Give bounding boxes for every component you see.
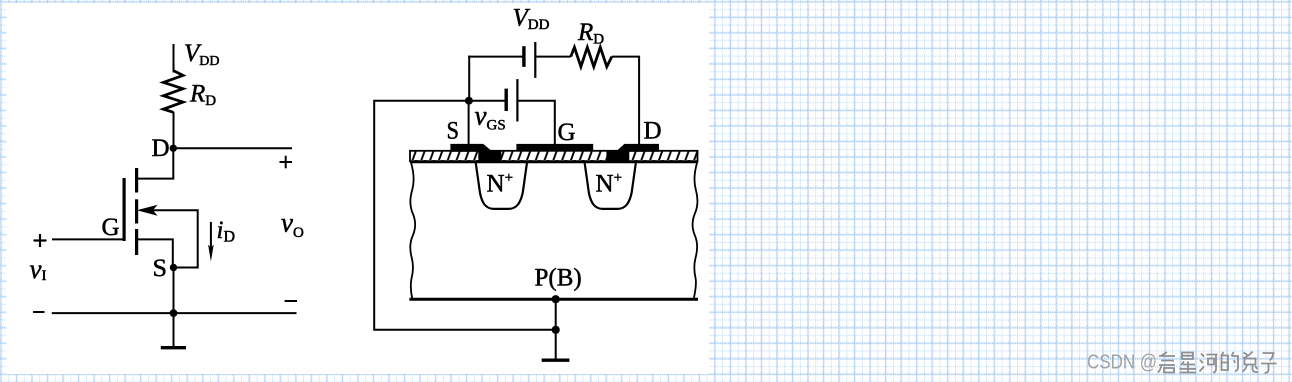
node D dot bbox=[170, 145, 177, 152]
watermark hanzi he bbox=[1200, 354, 1218, 373]
wire resistor to node D bbox=[173, 112, 175, 148]
svg-text:D: D bbox=[152, 135, 170, 162]
substrate left wavy edge bbox=[410, 162, 415, 299]
svg-text:S: S bbox=[153, 255, 168, 282]
wire S node up bbox=[468, 56, 470, 101]
transistor channel dash body bbox=[135, 199, 138, 223]
wire resistor to D corner bbox=[612, 57, 639, 144]
battery vGS short bar bbox=[505, 89, 508, 111]
substrate contact dot bbox=[552, 295, 560, 303]
svg-text:P(B): P(B) bbox=[535, 265, 582, 292]
watermark hanzi kan bbox=[1158, 352, 1175, 373]
ground (left) bbox=[161, 313, 186, 348]
current arrow i_D bbox=[208, 222, 214, 262]
N+ well left bbox=[476, 163, 527, 209]
battery vGS long bar bbox=[516, 79, 518, 121]
label minus left bbox=[33, 311, 45, 313]
wire drain stub bbox=[137, 149, 173, 179]
wire substrate to ground node bbox=[555, 299, 557, 330]
label minus right bbox=[285, 300, 297, 302]
wire body to source bbox=[152, 210, 198, 267]
electrode D metal bbox=[607, 144, 659, 161]
svg-text:CSDN @: CSDN @ bbox=[1087, 351, 1157, 374]
ground (right) bbox=[542, 330, 570, 360]
wire outer loop (S to substrate) bbox=[374, 101, 556, 330]
wire S to ground rail bbox=[173, 268, 175, 314]
watermark hanzi tu bbox=[1243, 352, 1259, 373]
wire gate input bbox=[52, 238, 124, 240]
transistor channel dash drain bbox=[135, 168, 138, 193]
oxide layer hatched bbox=[410, 151, 698, 161]
label + input bbox=[34, 234, 47, 247]
svg-text:S: S bbox=[447, 118, 460, 145]
wire S node down to contact bbox=[468, 101, 470, 145]
wire source stub bbox=[137, 239, 173, 267]
wire output top bbox=[173, 147, 292, 149]
resistor R_D (left) bbox=[163, 71, 183, 113]
wire battery to resistor bbox=[536, 56, 571, 58]
substrate bottom line bbox=[409, 298, 698, 301]
white panel bbox=[7, 3, 710, 374]
node S dot bbox=[170, 264, 177, 271]
label + output bbox=[280, 156, 293, 169]
watermark hanzi de bbox=[1222, 352, 1239, 371]
svg-text:D: D bbox=[644, 118, 662, 145]
node S junction dot bbox=[465, 97, 473, 105]
transistor channel dash source bbox=[135, 229, 138, 255]
wire bottom rail bbox=[52, 312, 297, 314]
svg-text:G: G bbox=[102, 214, 120, 241]
watermark hanzi xing bbox=[1180, 353, 1197, 373]
watermark hanzi zi bbox=[1261, 353, 1277, 373]
electrode S metal bbox=[451, 144, 501, 161]
svg-text:G: G bbox=[558, 119, 576, 146]
substrate right wavy edge bbox=[693, 162, 698, 299]
battery VDD short bar bbox=[522, 46, 525, 67]
body arrow head bbox=[139, 206, 156, 215]
substrate top line bbox=[410, 160, 698, 163]
wire S node to vGS battery bbox=[469, 100, 505, 102]
wire top to battery VDD bbox=[468, 56, 522, 58]
electrode G metal bbox=[516, 144, 593, 151]
battery VDD long bar bbox=[534, 42, 536, 78]
ground node dot bbox=[552, 326, 560, 334]
N+ well right bbox=[585, 163, 636, 209]
wire vGS battery to G bbox=[518, 101, 554, 144]
resistor R_D (right) bbox=[571, 47, 612, 66]
transistor gate bar bbox=[122, 178, 125, 241]
rail junction dot bbox=[170, 309, 178, 317]
wire VDD supply (left) bbox=[173, 44, 175, 73]
